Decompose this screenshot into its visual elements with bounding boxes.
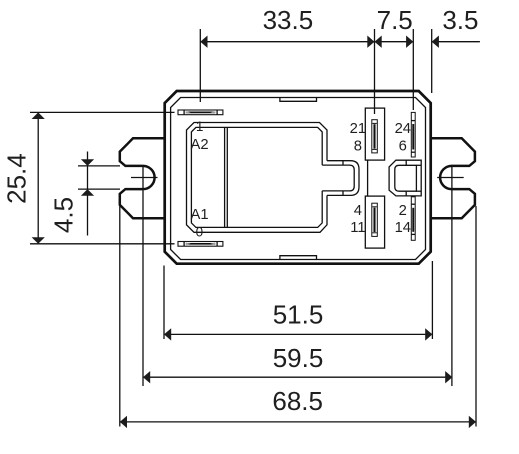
channel between pin slots (367, 160, 369, 196)
center clip inner (395, 165, 417, 191)
svg-text:A1: A1 (191, 207, 209, 223)
svg-text:68.5: 68.5 (272, 386, 323, 416)
pin slot 4/11 (365, 196, 384, 248)
svg-text:14: 14 (395, 220, 411, 236)
dimension line 7.5 (375, 41, 414, 43)
dimension line 3.5 (432, 41, 480, 43)
svg-text:0: 0 (196, 224, 204, 239)
svg-text:6: 6 (399, 138, 407, 154)
pin slot 2/14 (411, 197, 415, 241)
svg-text:59.5: 59.5 (273, 343, 324, 373)
left mounting ear (120, 138, 165, 218)
dimension line 25.4 (37, 112, 39, 243)
svg-text:4.5: 4.5 (49, 197, 79, 233)
keyhole tab outer (327, 161, 359, 196)
bottom latch slot (280, 256, 317, 260)
svg-text:24: 24 (395, 121, 411, 137)
keyhole tab inner (322, 165, 354, 191)
pin slot 24/6 (411, 112, 415, 157)
dimension line 51.5 (164, 333, 432, 335)
svg-text:2: 2 (399, 203, 407, 219)
svg-text:1: 1 (196, 119, 204, 134)
svg-text:51.5: 51.5 (273, 299, 324, 329)
terminal slot A1 (178, 242, 223, 247)
terminal slot A2 (178, 110, 223, 115)
svg-text:33.5: 33.5 (263, 5, 314, 35)
dimension line 4.5 (87, 152, 89, 236)
pin slot 21/8 (365, 108, 384, 160)
svg-text:8: 8 (354, 138, 362, 154)
svg-text:A2: A2 (191, 137, 209, 153)
body inner outline (171, 98, 426, 260)
inner recess outer outline (187, 123, 328, 233)
dimension line 33.5 (200, 41, 374, 43)
svg-text:7.5: 7.5 (377, 5, 413, 35)
svg-text:4: 4 (354, 203, 362, 219)
recess divider (224, 127, 226, 227)
svg-text:3.5: 3.5 (442, 5, 478, 35)
svg-text:25.4: 25.4 (2, 153, 32, 204)
dimension line 68.5 (120, 421, 476, 423)
top latch slot (280, 98, 317, 102)
left ear crosshair (131, 177, 158, 179)
body outer outline (165, 91, 431, 264)
center clip outer (389, 160, 421, 196)
dimension line 59.5 (143, 376, 452, 378)
svg-text:11: 11 (350, 220, 365, 236)
right mounting ear (430, 138, 475, 218)
svg-text:21: 21 (350, 121, 366, 137)
right ear crosshair (437, 177, 464, 179)
inner recess inner outline (191, 127, 322, 227)
